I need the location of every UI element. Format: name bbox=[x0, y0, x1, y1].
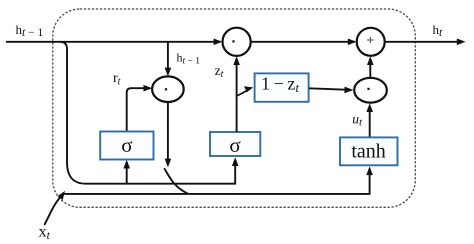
svg-text:rt: rt bbox=[113, 71, 121, 88]
sigma box 1 (reset gate) bbox=[100, 132, 153, 160]
svg-text:1 − zt: 1 − zt bbox=[261, 73, 299, 95]
arrow into sigma2 bbox=[232, 157, 239, 166]
svg-text:ht − 1: ht − 1 bbox=[177, 51, 201, 67]
wire r multiplier output down bbox=[165, 101, 172, 167]
svg-text:tanh: tanh bbox=[351, 141, 385, 163]
svg-text:ht − 1: ht − 1 bbox=[16, 22, 44, 39]
cell boundary (dashed rounded box) bbox=[53, 9, 416, 207]
sigma box 2 (update gate) bbox=[210, 132, 260, 157]
multiplier circle (r gate) bbox=[152, 76, 184, 102]
wire 1-z output to lower multiplier bbox=[309, 87, 353, 94]
wire sigma1 output to r multiplier bbox=[127, 88, 147, 131]
wire x_t candidate line to tanh bbox=[64, 172, 370, 194]
wire lower multiplier to adder bbox=[367, 56, 374, 78]
wire adder to output h_t bbox=[385, 39, 466, 46]
wire multiplier to adder bbox=[251, 39, 357, 46]
svg-text:σ: σ bbox=[229, 133, 240, 157]
arrow x_t into candidate line bbox=[58, 191, 65, 200]
lower multiplier circle bbox=[354, 78, 387, 103]
box 1 - z_t bbox=[255, 73, 309, 101]
wire branch to 1-z box bbox=[237, 90, 249, 96]
arrow into r multiplier bbox=[144, 85, 153, 92]
wire h_{t-1} drop into r-gate multiplier bbox=[165, 42, 172, 77]
adder circle bbox=[357, 28, 385, 56]
svg-text:xt: xt bbox=[39, 224, 51, 243]
svg-text:ut: ut bbox=[352, 112, 363, 129]
svg-text:σ: σ bbox=[121, 133, 132, 157]
svg-text:zt: zt bbox=[215, 63, 224, 80]
wire h branch down-left to gates line bbox=[60, 42, 235, 184]
arrow into tanh bottom bbox=[366, 166, 373, 175]
wire h_{t-1} main line bbox=[6, 39, 222, 46]
multiplier circle (on main line) bbox=[223, 28, 251, 56]
svg-text:ht: ht bbox=[433, 22, 444, 39]
wire branch up into sigma1 bbox=[123, 160, 130, 184]
tanh box bbox=[340, 137, 398, 165]
wire tanh output to lower multiplier bbox=[366, 103, 373, 137]
wire x_t input curve bbox=[44, 197, 61, 225]
arrow into 1-z box bbox=[244, 86, 253, 92]
wire z_t from sigma2 up to multiplier bbox=[233, 56, 240, 132]
wire merge curve into candidate line bbox=[164, 168, 188, 194]
